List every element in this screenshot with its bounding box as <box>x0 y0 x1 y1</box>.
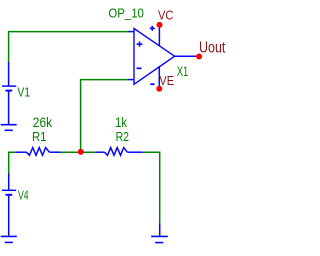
svg-text:R2: R2 <box>116 129 129 144</box>
ground right of R2 <box>151 223 168 242</box>
ground under V4 <box>1 236 17 242</box>
op-amp - input stub <box>128 79 134 81</box>
svg-text:VE: VE <box>159 73 174 88</box>
pin VC vertical <box>158 25 160 46</box>
battery V4 <box>2 173 16 236</box>
junction node dot <box>78 149 84 155</box>
op-amp inner plus <box>137 42 143 47</box>
svg-text:V4: V4 <box>18 188 29 203</box>
node VC dot <box>157 22 163 28</box>
ground under V1 <box>1 125 17 131</box>
op-amp inner minus <box>137 67 142 69</box>
wire R2 to ground <box>142 152 159 223</box>
svg-text:V1: V1 <box>17 85 30 100</box>
node Uout dot <box>196 54 202 60</box>
battery V1 <box>2 62 16 124</box>
svg-text:R1: R1 <box>32 129 46 144</box>
svg-text:26k: 26k <box>33 115 53 130</box>
op-amp U1 triangle <box>134 29 175 85</box>
node VE dot <box>156 86 162 92</box>
wire bottom left corner to V4 <box>9 152 17 173</box>
svg-text:VC: VC <box>158 7 173 22</box>
svg-text:OP_10: OP_10 <box>108 5 143 20</box>
wire top from V1 to op-amp + input <box>9 32 129 63</box>
wire R1 to junction to R2 <box>60 151 96 153</box>
svg-text:Uout: Uout <box>199 40 226 57</box>
wire inverting input from junction <box>81 80 129 153</box>
resistor R2 <box>96 148 143 156</box>
pin VE vertical <box>158 66 160 89</box>
supply plus marker <box>150 26 155 31</box>
op-amp + input stub <box>128 31 134 33</box>
resistor R1 <box>16 148 61 156</box>
op-amp output wire <box>175 55 199 57</box>
supply minus marker <box>150 83 154 85</box>
svg-text:X1: X1 <box>177 63 189 79</box>
